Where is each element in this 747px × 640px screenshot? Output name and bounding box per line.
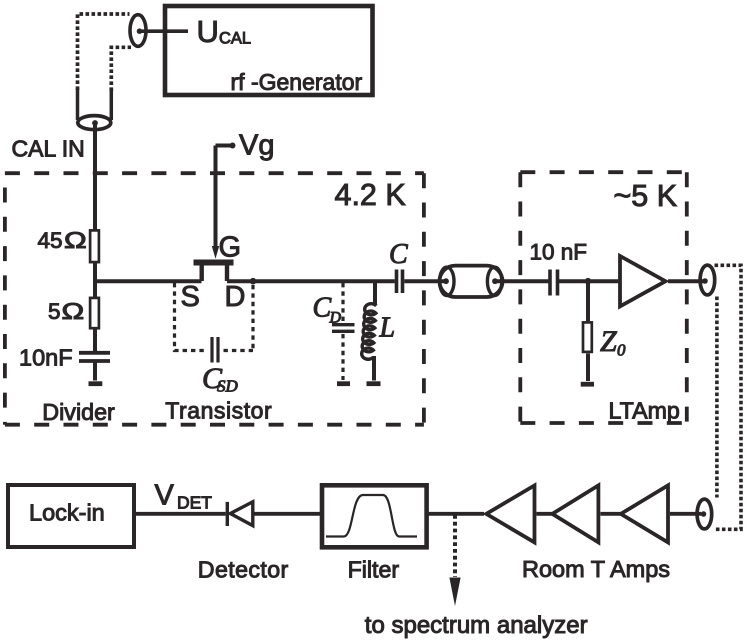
ground (divider) bbox=[89, 381, 103, 386]
dotted cable inner conductor bbox=[111, 47, 131, 91]
op-amp room T amp 1 bbox=[486, 485, 534, 542]
label C_D bbox=[313, 293, 342, 327]
wire bottom chain bbox=[136, 512, 701, 516]
op-amp LT amplifier bbox=[620, 256, 666, 306]
ground (C_D) bbox=[337, 381, 350, 386]
svg-text:G: G bbox=[219, 232, 242, 264]
svg-text:Detector: Detector bbox=[198, 557, 289, 583]
label U_CAL bbox=[197, 14, 252, 49]
node Vg terminal dot bbox=[230, 143, 236, 149]
coax cable right end cap bbox=[487, 267, 501, 295]
svg-text:~5 K: ~5 K bbox=[614, 179, 678, 213]
wire from connector into rf-Generator bbox=[140, 29, 188, 33]
dotted cable outer conductor (CAL IN to rf-Generator) bbox=[78, 14, 130, 90]
diode detector triangle bbox=[230, 502, 253, 526]
svg-text:C: C bbox=[389, 239, 408, 270]
label C_SD bbox=[202, 362, 239, 396]
svg-text:rf -Generator: rf -Generator bbox=[231, 69, 363, 95]
coax cable left end cap bbox=[440, 267, 454, 295]
svg-text:Lock-in: Lock-in bbox=[29, 500, 105, 526]
wire CAL IN down through divider bbox=[93, 124, 97, 381]
label 45 Ohm bbox=[38, 228, 87, 254]
capacitor C_SD plates bbox=[212, 337, 218, 363]
capacitor 10nF (divider) bbox=[79, 353, 110, 361]
arrow to spectrum analyzer bbox=[449, 578, 460, 607]
svg-text:CAL: CAL bbox=[219, 30, 251, 48]
transistor source stub bbox=[199, 265, 203, 282]
svg-text:Room T Amps: Room T Amps bbox=[522, 556, 670, 582]
svg-text:S: S bbox=[181, 281, 200, 313]
svg-text:45: 45 bbox=[38, 228, 63, 253]
label Z0 bbox=[600, 325, 626, 360]
inductor L leads bbox=[374, 281, 375, 380]
svg-text:Filter: Filter bbox=[348, 557, 400, 583]
dotted cable inner conductor bbox=[715, 297, 719, 498]
node junction dot at Z0 bbox=[585, 278, 592, 285]
svg-text:Z: Z bbox=[600, 325, 617, 358]
coax connector at rf-Generator input bbox=[130, 15, 146, 47]
capacitor C plates bbox=[397, 270, 403, 294]
svg-text:5: 5 bbox=[48, 299, 61, 324]
svg-text:V: V bbox=[155, 480, 175, 512]
node junction to spectrum analyzer bbox=[453, 515, 457, 577]
Filter box bbox=[322, 485, 427, 547]
CAL IN connector bbox=[78, 116, 111, 130]
arrow on gate wire bbox=[212, 246, 219, 259]
resistor R1 45 Ohm bbox=[90, 230, 99, 262]
capacitor 10 nF plates bbox=[550, 270, 558, 296]
4.2 K cryostat dashed box bbox=[5, 171, 424, 175]
Lock-in box bbox=[8, 485, 134, 547]
label 5 Ohm bbox=[48, 299, 84, 325]
rf-Generator box bbox=[165, 6, 373, 95]
transistor gate bar bbox=[194, 260, 234, 266]
inductor L coil bbox=[362, 304, 377, 360]
diode detector bar bbox=[226, 502, 229, 526]
op-amp room T amp 3 bbox=[621, 485, 668, 542]
ground (Z0) bbox=[581, 382, 594, 387]
filter bandpass curve bbox=[326, 495, 417, 537]
svg-text:CAL IN: CAL IN bbox=[12, 136, 85, 162]
svg-text:Ω: Ω bbox=[62, 299, 85, 325]
wire Vg to gate bbox=[216, 146, 231, 253]
node junction dot at drain bbox=[250, 278, 257, 285]
svg-text:10 nF: 10 nF bbox=[530, 240, 588, 265]
capacitor C_SD dashed box bbox=[175, 283, 254, 351]
label V_DET bbox=[155, 480, 213, 513]
dotted cable outer conductor (LTAmp to room T amps) bbox=[714, 265, 742, 529]
svg-text:10nF: 10nF bbox=[19, 345, 73, 371]
coax cable left pin bbox=[443, 278, 449, 284]
svg-text:Divider: Divider bbox=[42, 399, 115, 425]
svg-text:4.2 K: 4.2 K bbox=[335, 178, 406, 212]
coax cable body bbox=[440, 266, 503, 297]
resistor Z0 bbox=[583, 322, 592, 352]
coax cable right pin bbox=[492, 278, 498, 284]
svg-text:D: D bbox=[329, 310, 342, 327]
svg-text:U: U bbox=[197, 14, 219, 49]
svg-text:DET: DET bbox=[177, 493, 212, 513]
coax connector room T amps input bbox=[697, 499, 712, 529]
capacitor C_D dashed leads bbox=[341, 283, 344, 380]
~5 K cryostat dashed box bbox=[520, 170, 687, 174]
ground (L) bbox=[367, 381, 381, 386]
svg-text:Vg: Vg bbox=[239, 130, 274, 162]
svg-text:D: D bbox=[225, 281, 246, 313]
coax connector LTAmp output bbox=[700, 265, 715, 295]
svg-text:L: L bbox=[379, 313, 396, 344]
wire main signal node bbox=[95, 279, 705, 283]
svg-text:SD: SD bbox=[217, 377, 239, 396]
resistor Z0 leads bbox=[586, 281, 590, 381]
resistor R2 5 Ohm bbox=[90, 298, 99, 328]
CAL IN connector tube bbox=[78, 89, 112, 121]
op-amp room T amp 2 bbox=[552, 485, 598, 542]
capacitor C_D plates bbox=[332, 325, 355, 332]
svg-text:to spectrum analyzer: to spectrum analyzer bbox=[365, 612, 588, 639]
svg-text:Ω: Ω bbox=[64, 228, 87, 254]
svg-text:LTAmp: LTAmp bbox=[609, 398, 680, 424]
svg-text:Transistor: Transistor bbox=[165, 398, 272, 424]
transistor drain stub bbox=[225, 265, 229, 282]
svg-text:0: 0 bbox=[617, 341, 626, 360]
